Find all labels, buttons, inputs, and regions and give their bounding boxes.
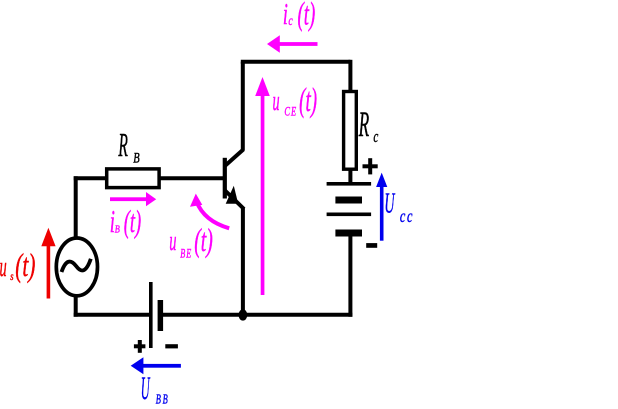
wire: collector riser (241, 62, 245, 150)
battery Ubb plate long thin (149, 282, 153, 348)
svg-text:B: B (115, 223, 120, 235)
label uCE(t) (273, 85, 280, 117)
minus sign Ucc (366, 243, 377, 248)
sine symbol (62, 259, 91, 272)
battery Ucc plate short thick 2 (335, 230, 362, 237)
wire: bottom right segment (163, 313, 353, 317)
wire: top right drop to Rc (348, 60, 352, 94)
battery Ucc plate long thin 1 (327, 182, 372, 186)
wire: source bottom riser (74, 294, 78, 317)
AC source Vs (56, 238, 97, 296)
wire: battery Ucc to bottom (348, 235, 352, 317)
arrow iB (110, 192, 156, 206)
wire: bottom left segment (74, 313, 150, 317)
arrow uBE head (190, 194, 202, 207)
battery Ucc plate long thin 2 (327, 213, 372, 217)
label Rb (118, 125, 128, 164)
svg-text:(t): (t) (15, 247, 35, 284)
svg-text:(t): (t) (298, 0, 316, 32)
wire: riser corner to Rb (74, 176, 108, 180)
svg-text:(t): (t) (194, 222, 213, 258)
svg-text:u: u (273, 85, 280, 117)
svg-text:(t): (t) (299, 80, 317, 118)
junction node emitter/bottom (239, 309, 248, 320)
label us(t) (0, 251, 7, 283)
wire: top horizontal (241, 60, 351, 64)
label iB(t) (110, 204, 115, 239)
transistor Q1 emitter lead (225, 190, 244, 209)
svg-text:(t): (t) (124, 204, 142, 239)
svg-text:i: i (283, 0, 288, 31)
arrow uBE arc (197, 202, 230, 229)
wire: Rc to battery Ucc (348, 169, 352, 183)
wire: emitter riser to junction (241, 208, 245, 316)
transistor Q1 base bar (223, 158, 227, 199)
label uBE(t) (169, 225, 176, 257)
label iC(t) (283, 0, 288, 31)
arrow uCE (255, 77, 270, 295)
plus sign Ucc (363, 158, 378, 174)
svg-text:BE: BE (180, 248, 192, 261)
wire: Rb to base (159, 176, 224, 180)
svg-text:B: B (133, 149, 139, 166)
plus sign Ubb (134, 340, 146, 353)
svg-text:U: U (141, 371, 151, 407)
svg-text:R: R (358, 105, 369, 145)
resistor Rc (344, 92, 357, 170)
battery Ucc plate short thick 1 (335, 197, 362, 204)
arrow Ucc (376, 173, 387, 241)
wire: source top riser (74, 176, 78, 239)
svg-text:U: U (384, 187, 395, 219)
arrow Ubb (131, 357, 181, 374)
arrow us (red) (41, 228, 55, 299)
svg-text:u: u (0, 251, 7, 283)
resistor Rb (107, 169, 159, 188)
svg-text:u: u (169, 225, 176, 257)
svg-text:s: s (10, 271, 13, 284)
battery Ubb plate short thick (158, 300, 164, 331)
transistor Q1 collector lead (225, 149, 244, 166)
svg-text:c: c (288, 12, 293, 28)
svg-text:c: c (373, 128, 378, 147)
svg-text:R: R (118, 125, 128, 164)
label Ucc (384, 187, 395, 219)
arrow iC (267, 35, 318, 52)
svg-text:cc: cc (400, 207, 414, 227)
label Ubb (141, 371, 151, 407)
transistor Q1 emitter arrowhead (226, 186, 239, 204)
label Rc (358, 105, 369, 145)
svg-text:BB: BB (156, 393, 170, 407)
svg-text:CE: CE (284, 105, 297, 119)
minus sign Ubb (165, 344, 178, 348)
